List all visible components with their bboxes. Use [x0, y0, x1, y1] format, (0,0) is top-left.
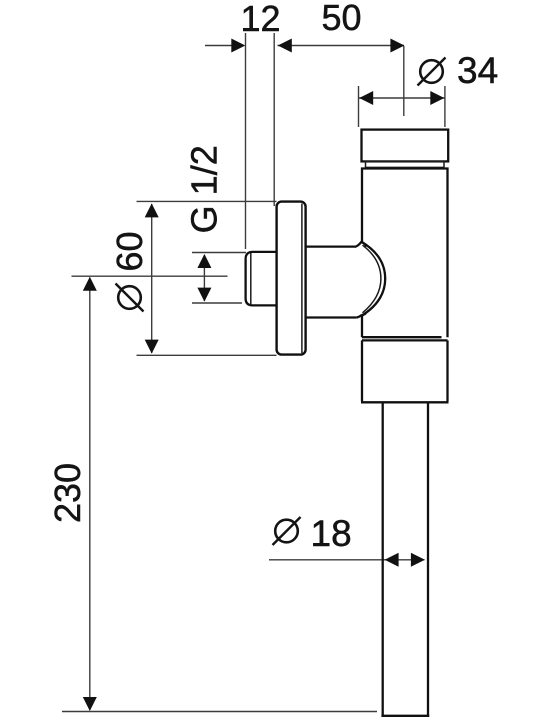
- G dim bottom extension line: [192, 302, 242, 304]
- horn lower line: [305, 316, 357, 318]
- dim label diameter 18: [273, 513, 352, 554]
- svg-text:60: 60: [109, 231, 150, 271]
- dim 12 extension line right x=274: [273, 33, 275, 206]
- G dim top extension line: [192, 252, 246, 254]
- dim 34 extension line left: [358, 86, 360, 127]
- svg-text:50: 50: [321, 0, 361, 38]
- dim 12 arrow right-pointing: [231, 39, 245, 53]
- dim 60 top extension line: [137, 200, 277, 202]
- dim 18 arrow left-pointing: [385, 553, 399, 567]
- bottom baseline: [62, 711, 377, 713]
- dim 230 arrow down-pointing: [83, 697, 97, 711]
- dim 12 extension line left x=245.5: [245, 33, 247, 249]
- valve slip ring: [366, 161, 445, 167]
- dim 50 line: [278, 45, 405, 47]
- dim 12 pointer line left: [205, 45, 233, 47]
- body joint upper line: [362, 336, 442, 338]
- centerline below 50 arrow: [403, 46, 405, 116]
- svg-text:18: 18: [311, 513, 352, 554]
- body joint lower line: [362, 339, 448, 341]
- dim 60 line: [151, 204, 153, 353]
- dim 230 arrow up-pointing: [83, 277, 97, 291]
- dim label 230 rotated: [47, 463, 88, 523]
- valve lower body: [361, 340, 449, 402]
- wall flange rosette: [277, 202, 306, 355]
- dim 34 arrow right-pointing: [430, 91, 444, 105]
- G dim arrow up-pointing: [197, 254, 211, 268]
- dim 18 arrow right-pointing: [411, 553, 425, 567]
- svg-text:230: 230: [47, 463, 88, 523]
- dim 34 line: [359, 97, 445, 99]
- dim label diameter 60 rotated: [109, 231, 150, 311]
- dim 34 arrow left-pointing: [359, 91, 373, 105]
- dim 60 arrow down-pointing: [145, 340, 159, 354]
- svg-text:34: 34: [457, 50, 498, 91]
- dim label G 1/2 rotated: [183, 145, 224, 233]
- nipple chamfer line: [250, 253, 252, 304]
- horn upper line: [305, 245, 356, 247]
- dim 50 arrow right-pointing: [390, 39, 404, 53]
- horn bell inner curve: [363, 245, 381, 313]
- G dim line: [203, 255, 205, 301]
- dim 60 bottom extension line: [137, 354, 277, 356]
- outlet tube left wall: [382, 403, 384, 715]
- horn bell top tip: [355, 242, 366, 247]
- dim label diameter 34: [418, 50, 499, 91]
- outlet tube right wall: [427, 403, 429, 715]
- dim 60 arrow up-pointing: [145, 203, 159, 217]
- dim 18 leader line: [269, 559, 385, 561]
- valve main body: [362, 167, 448, 337]
- G dim arrow down-pointing: [197, 288, 211, 302]
- dim 18 inner line: [385, 559, 425, 561]
- valve cap top: [362, 130, 449, 162]
- dim 34 extension line right: [444, 86, 446, 127]
- horn bell outer curve: [362, 242, 385, 316]
- horn bell bottom tip: [357, 313, 366, 317]
- svg-text:G 1/2: G 1/2: [183, 145, 224, 233]
- inlet thread nipple G 1/2: [246, 252, 277, 306]
- dim 50 arrow left-pointing: [278, 39, 292, 53]
- dim 230 line: [89, 278, 91, 711]
- flange face inner line: [301, 204, 303, 354]
- horizontal centerline of inlet: [72, 275, 228, 277]
- outlet tube bottom edge: [381, 715, 429, 717]
